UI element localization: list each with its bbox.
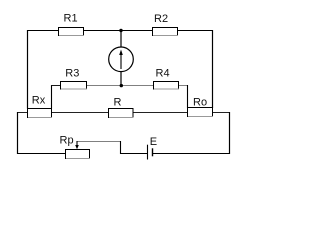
resistor R2 bbox=[153, 28, 179, 36]
wire bottom-left to Rp bbox=[17, 153, 66, 155]
svg-text:R2: R2 bbox=[154, 13, 168, 25]
battery E bbox=[148, 145, 153, 160]
svg-text:Ro: Ro bbox=[193, 97, 207, 109]
svg-text:Rp: Rp bbox=[60, 135, 74, 147]
wire from wiper corner to battery bbox=[120, 153, 147, 155]
resistor R1 bbox=[59, 28, 85, 36]
wire middle-right vertical to Ro left corner bbox=[187, 85, 189, 108]
wire wiper-down vertical bbox=[120, 141, 122, 154]
wire lower branch Rx-R-Ro row bbox=[17, 112, 229, 114]
svg-text:R1: R1 bbox=[64, 13, 78, 25]
wire wiper horizontal bbox=[77, 141, 121, 143]
resistor R3 bbox=[61, 82, 88, 90]
junction dot top bbox=[119, 29, 122, 32]
svg-text:Rx: Rx bbox=[32, 94, 46, 106]
wire right vertical from top node to Ro bbox=[212, 30, 214, 108]
resistor R4 bbox=[154, 82, 180, 90]
rheostat Rp bbox=[66, 141, 91, 159]
resistor Ro bbox=[188, 108, 214, 117]
wire middle horizontal R3-R4 branch bbox=[52, 85, 188, 87]
wire middle-left vertical to Rx right corner bbox=[51, 85, 53, 109]
svg-text:R: R bbox=[114, 97, 122, 109]
wire from battery to right corner bbox=[153, 153, 230, 155]
current source U1 bbox=[109, 30, 134, 86]
wire left vertical from top node to Rx bbox=[27, 30, 29, 109]
svg-text:R3: R3 bbox=[65, 68, 79, 80]
resistor Rx bbox=[28, 109, 53, 118]
wire stub left of R3 bbox=[52, 85, 62, 87]
wire outer-right vertical bbox=[229, 112, 231, 154]
svg-text:E: E bbox=[150, 136, 157, 148]
wire top horizontal bbox=[27, 30, 213, 32]
wire outer-left vertical bbox=[17, 112, 19, 154]
junction dot middle bbox=[120, 84, 123, 87]
resistor R bbox=[109, 109, 134, 118]
svg-text:R4: R4 bbox=[156, 68, 170, 80]
